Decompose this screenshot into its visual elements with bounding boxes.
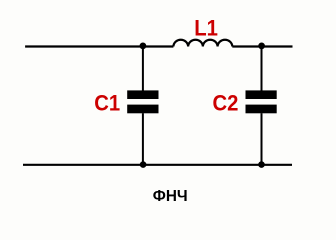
svg-text:C1: C1 (94, 91, 120, 116)
svg-text:L1: L1 (194, 15, 218, 40)
svg-text:ФНЧ: ФНЧ (153, 188, 188, 205)
svg-text:C2: C2 (213, 91, 239, 116)
